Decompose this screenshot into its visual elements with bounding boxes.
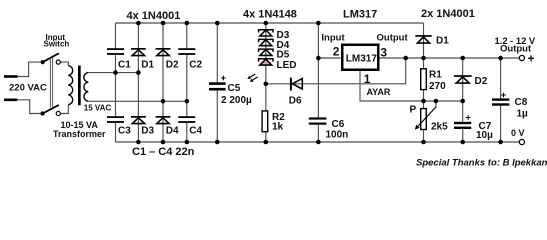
svg-text:D1: D1 bbox=[141, 60, 154, 71]
wire adjust pin1 AYAR line bbox=[360, 71, 463, 101]
label Special Thanks bbox=[416, 158, 547, 169]
LED light arrows bbox=[247, 74, 257, 82]
svg-text:D2: D2 bbox=[475, 76, 488, 87]
transformer T1 secondary bbox=[84, 73, 88, 102]
junction dots adjust line bbox=[421, 99, 465, 104]
wire D2 C7 column bbox=[462, 58, 464, 142]
wire bridge column 1 bbox=[115, 23, 117, 142]
svg-text:1: 1 bbox=[364, 72, 371, 86]
regulator U1 LM317 bbox=[342, 45, 378, 70]
wire top positive rail bbox=[116, 22, 424, 24]
pin 2 bbox=[333, 45, 340, 59]
pin 1 bbox=[364, 72, 371, 86]
mains lead top bbox=[4, 62, 43, 76]
label 10-15 VA bbox=[61, 120, 99, 130]
wire bridge column 2 bbox=[137, 23, 139, 142]
label Input Switch bbox=[44, 33, 70, 49]
switch S1b bbox=[41, 105, 69, 116]
svg-text:2 200µ: 2 200µ bbox=[221, 95, 252, 106]
svg-text:2: 2 bbox=[333, 45, 340, 59]
svg-text:D1: D1 bbox=[436, 36, 449, 47]
capacitor C8 electrolytic bbox=[492, 93, 528, 120]
svg-text:D3: D3 bbox=[141, 126, 154, 137]
label 4x 1N4148 bbox=[243, 9, 297, 21]
switch linkage bbox=[50, 57, 52, 107]
junction dots ground rail bbox=[136, 140, 503, 145]
label 1.2 - 12 V bbox=[495, 35, 536, 46]
svg-text:LM317: LM317 bbox=[343, 9, 377, 21]
svg-text:LM317: LM317 bbox=[346, 53, 378, 64]
label C1-C4 22n bbox=[132, 146, 195, 158]
diode D1 bridge bbox=[131, 48, 155, 71]
terminal output plus bbox=[519, 52, 534, 66]
diode D6 bbox=[289, 78, 303, 107]
pin 3 bbox=[380, 46, 387, 60]
wire C6 column bbox=[317, 23, 319, 142]
wire pot wiper tap bbox=[435, 101, 437, 108]
diode D5 1N4148 bbox=[259, 49, 290, 61]
svg-text:4x 1N4001: 4x 1N4001 bbox=[127, 10, 181, 22]
diode D4 bridge bbox=[156, 116, 179, 137]
wire D6 sense line bbox=[266, 58, 406, 84]
svg-text:270: 270 bbox=[429, 81, 446, 92]
wire D1 R1 column bbox=[423, 23, 425, 101]
svg-text:LED: LED bbox=[277, 60, 297, 71]
svg-text:AYAR: AYAR bbox=[367, 87, 391, 97]
svg-text:100n: 100n bbox=[326, 130, 349, 141]
capacitor C1 bbox=[107, 48, 131, 70]
label 220 VAC bbox=[9, 83, 47, 94]
svg-text:C3: C3 bbox=[118, 126, 131, 137]
LED indicator bbox=[259, 59, 297, 71]
svg-text:220 VAC: 220 VAC bbox=[9, 83, 47, 94]
label Output bbox=[377, 33, 409, 44]
svg-text:Input: Input bbox=[321, 33, 345, 44]
wire C5 column bbox=[216, 23, 218, 142]
transformer T1 primary bbox=[68, 66, 72, 105]
label Transformer bbox=[53, 129, 106, 139]
svg-text:1µ: 1µ bbox=[517, 109, 529, 120]
svg-text:Switch: Switch bbox=[44, 40, 70, 49]
label 4x 1N4001 bbox=[127, 10, 181, 22]
terminal 0V bbox=[511, 128, 525, 145]
diode D3 1N4148 bbox=[259, 30, 290, 41]
resistor R2 bbox=[262, 111, 285, 133]
svg-text:P: P bbox=[410, 105, 417, 116]
svg-text:3: 3 bbox=[380, 46, 387, 60]
svg-text:C6: C6 bbox=[332, 119, 345, 130]
wire output rail bbox=[379, 57, 520, 59]
diode D2 protection bbox=[454, 75, 488, 87]
diode D3 bridge bbox=[131, 116, 155, 137]
label AYAR bbox=[367, 87, 391, 97]
wire LM317 input pin2 bbox=[318, 57, 340, 59]
svg-text:C5: C5 bbox=[228, 83, 241, 94]
potentiometer P bbox=[410, 105, 449, 133]
resistor R1 bbox=[421, 69, 446, 92]
capacitor C4 bbox=[178, 116, 202, 136]
switch S1a bbox=[41, 53, 69, 65]
svg-text:D4: D4 bbox=[166, 126, 179, 137]
wire AC2 rail from secondary bottom bbox=[88, 100, 187, 102]
svg-text:Special Thanks to: B Ipekkan: Special Thanks to: B Ipekkan bbox=[416, 158, 547, 169]
label 2x 1N4001 bbox=[421, 8, 475, 20]
svg-text:1k: 1k bbox=[272, 122, 284, 133]
svg-text:2x 1N4001: 2x 1N4001 bbox=[421, 8, 475, 20]
diode D1 protection bbox=[415, 35, 449, 46]
junction dots output rail bbox=[316, 56, 503, 61]
svg-text:0 V: 0 V bbox=[511, 128, 525, 138]
svg-text:C4: C4 bbox=[189, 126, 202, 137]
diode D2 bridge bbox=[156, 48, 179, 71]
transformer core bbox=[78, 66, 81, 106]
svg-text:Output: Output bbox=[377, 33, 409, 44]
label 15 VAC bbox=[84, 104, 112, 113]
svg-text:C1: C1 bbox=[118, 60, 131, 71]
label Output terminal bbox=[500, 44, 532, 55]
svg-text:C1 – C4 22n: C1 – C4 22n bbox=[132, 146, 195, 158]
capacitor C7 electrolytic bbox=[454, 115, 493, 141]
wire AC1 rail from secondary top bbox=[88, 72, 138, 74]
svg-text:Output: Output bbox=[500, 44, 532, 55]
wire bridge column 4 bbox=[186, 23, 188, 142]
capacitor C5 electrolytic bbox=[209, 76, 252, 106]
svg-text:D6: D6 bbox=[289, 96, 302, 107]
svg-text:4x 1N4148: 4x 1N4148 bbox=[243, 9, 297, 21]
capacitor C2 bbox=[178, 48, 202, 70]
junction dots AC1 bbox=[113, 70, 141, 75]
diode D4 1N4148 bbox=[259, 39, 290, 50]
mains lead bottom bbox=[4, 100, 43, 114]
junction dots AC2 bbox=[161, 99, 189, 104]
wire C8 column bbox=[500, 58, 502, 142]
wire bridge column 3 bbox=[162, 23, 164, 142]
svg-text:Transformer: Transformer bbox=[53, 129, 106, 139]
capacitor C3 bbox=[107, 116, 131, 136]
junction dots top rail bbox=[136, 21, 321, 26]
label LM317 top bbox=[343, 9, 377, 21]
svg-text:C8: C8 bbox=[515, 97, 528, 108]
svg-text:15 VAC: 15 VAC bbox=[84, 104, 112, 113]
wire ground rail 0V bbox=[116, 141, 520, 143]
wire LED stack column bbox=[265, 23, 267, 142]
svg-text:D2: D2 bbox=[166, 60, 179, 71]
capacitor C6 bbox=[309, 117, 348, 140]
svg-text:10µ: 10µ bbox=[476, 130, 493, 141]
junction dot LED R2 node bbox=[264, 82, 269, 87]
svg-text:C2: C2 bbox=[189, 60, 202, 71]
wire potentiometer column bbox=[423, 101, 425, 142]
svg-text:2k5: 2k5 bbox=[431, 122, 448, 133]
svg-text:R1: R1 bbox=[429, 70, 442, 81]
label Input bbox=[321, 33, 345, 44]
